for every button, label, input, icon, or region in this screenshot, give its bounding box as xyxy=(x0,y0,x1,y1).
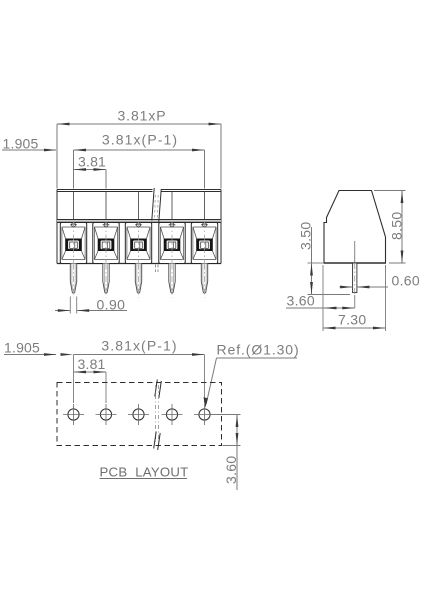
svg-text:1.905: 1.905 xyxy=(3,136,39,152)
svg-text:0.60: 0.60 xyxy=(392,273,420,289)
svg-text:7.30: 7.30 xyxy=(338,312,366,328)
pcb hole 5 xyxy=(194,404,241,425)
side view pin xyxy=(353,241,357,300)
dimension 1.905 (front) xyxy=(2,136,57,152)
dimension 3.81xP xyxy=(57,108,221,189)
dimension 3.81x(P-1) (pcb) xyxy=(74,338,205,404)
svg-text:3.81: 3.81 xyxy=(78,356,106,372)
dimension 3.60 (pcb) xyxy=(211,415,241,491)
dimension 3.81 (front) xyxy=(74,154,107,189)
svg-text:0.90: 0.90 xyxy=(97,297,126,313)
pin 3 xyxy=(135,264,141,298)
terminal cell 3 xyxy=(125,222,151,264)
pin 2 xyxy=(103,264,109,298)
svg-text:1.905: 1.905 xyxy=(4,340,40,356)
dimension 0.90 (pin width) xyxy=(55,297,127,314)
dimension 3.60 (side) xyxy=(286,265,386,331)
pcb outline dashed rect xyxy=(57,383,222,446)
pin 5 xyxy=(201,264,207,298)
pin 4 xyxy=(169,264,175,298)
svg-text:PCB LAYOUT: PCB LAYOUT xyxy=(100,465,189,480)
dimension 1.905 (pcb) xyxy=(4,340,73,356)
pcb layout label xyxy=(100,465,189,480)
dimension 7.30 (body depth) xyxy=(323,312,386,330)
pcb hole 3 xyxy=(128,404,149,425)
pin 1 xyxy=(70,264,76,298)
Ref hole diameter callout xyxy=(204,342,300,408)
svg-text:3.81: 3.81 xyxy=(78,154,106,170)
terminal cell 5 xyxy=(191,222,217,264)
svg-text:3.60: 3.60 xyxy=(223,456,239,484)
svg-text:3.81x(P-1): 3.81x(P-1) xyxy=(102,132,178,148)
dimension 8.50 (body height) xyxy=(374,191,406,264)
terminal block body top band xyxy=(57,190,221,264)
dimension 3.81 (pcb) xyxy=(74,356,107,403)
pcb break lines xyxy=(154,380,162,451)
svg-text:Ref.(Ø1.30): Ref.(Ø1.30) xyxy=(217,342,300,358)
dimension 0.60 (pin thickness) xyxy=(340,273,420,289)
terminal cell 4 xyxy=(159,222,185,264)
svg-text:3.81x(P-1): 3.81x(P-1) xyxy=(101,338,177,354)
side view body xyxy=(324,191,387,264)
pcb hole 1 xyxy=(63,404,84,425)
svg-text:3.60: 3.60 xyxy=(287,293,315,309)
body break lines (front) xyxy=(152,188,161,272)
terminal cell 1 xyxy=(60,222,86,264)
pcb hole 2 xyxy=(96,404,117,425)
pcb hole 4 xyxy=(162,404,183,425)
dimension 3.81x(P-1) (front) xyxy=(74,132,205,189)
svg-text:3.81xP: 3.81xP xyxy=(118,108,167,124)
dimension 3.50 (pin length) xyxy=(298,222,351,295)
terminal cell 2 xyxy=(93,222,119,264)
